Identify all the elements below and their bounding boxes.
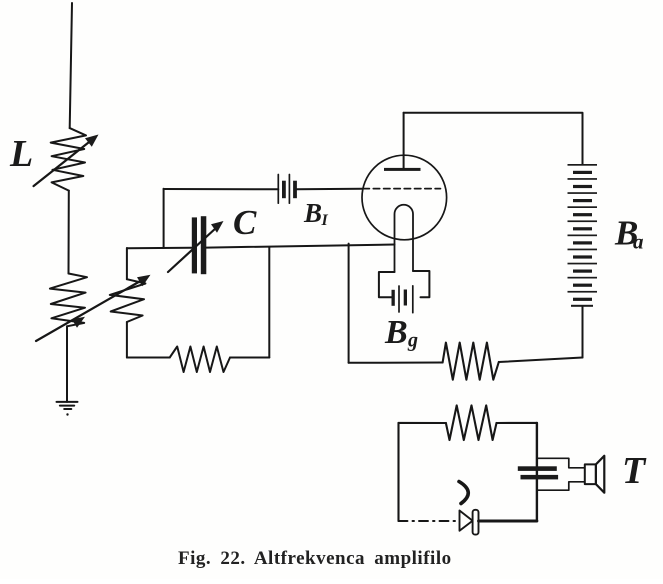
svg-text:Fig. 22. Altfrekvenca amplifil: Fig. 22. Altfrekvenca amplifilo: [178, 548, 452, 569]
svg-text:g: g: [407, 330, 418, 352]
detector coupling coil: [446, 405, 497, 440]
triode tube envelope: [362, 155, 447, 240]
capacitor across phones (bottom plate): [521, 475, 559, 480]
filament (cathode) loop of tube: [395, 205, 414, 272]
label B1: [303, 198, 329, 229]
phone connector bottom lead: [537, 482, 585, 490]
wire grid line to battery B1: [164, 188, 279, 190]
inductor L (variable antenna coil): [51, 128, 86, 191]
detector loop left side: [397, 423, 399, 521]
svg-text:T: T: [622, 450, 647, 492]
wire cathode drop vertical: [348, 244, 350, 363]
filament bracket right: [413, 271, 429, 297]
arrow of variable capacitor C: [168, 221, 224, 272]
wire tank top left segment: [127, 247, 192, 250]
wire tank bottom left: [127, 357, 170, 359]
arrow of variable inductor L: [34, 135, 99, 187]
battery Bg cells: [392, 286, 413, 313]
battery B1 (grid battery): [278, 175, 297, 204]
cat whisker arc above diode: [459, 482, 468, 504]
capacitor across phones (top plate): [518, 466, 557, 471]
plate (anode) bar of tube: [384, 168, 421, 171]
wire battery B1 to tube grid: [297, 188, 362, 191]
wire grid tap vertical: [163, 189, 165, 248]
svg-text:B: B: [384, 314, 408, 351]
detector loop top-left wire: [399, 422, 446, 424]
svg-text:I: I: [321, 212, 329, 229]
label Ba: [614, 214, 644, 254]
diode (crystal detector): [460, 510, 479, 535]
wire tank right side: [268, 248, 270, 358]
wire plate lead: [403, 113, 405, 168]
wire from L down to coupling coil: [68, 191, 70, 274]
wire dash-dot bottom left of loop: [399, 520, 460, 522]
filament bracket left: [379, 272, 395, 297]
wire coil to ground: [66, 326, 68, 402]
grid (dashed) of tube: [363, 188, 441, 190]
inductor tank bottom coil: [170, 347, 230, 373]
primary coil of variocoupler (left): [50, 274, 87, 327]
svg-text:L: L: [9, 133, 33, 175]
wire anode return right: [499, 358, 583, 363]
detector loop top-right wire: [497, 422, 537, 424]
wire antenna lead-in: [70, 3, 72, 128]
ground: [57, 402, 78, 416]
arrow of variocoupler (through both coils): [36, 275, 151, 341]
capacitor C plates (variable): [192, 216, 207, 274]
wire bottom right of loop: [479, 520, 537, 523]
telephone receiver T body: [585, 464, 596, 484]
secondary coil of variocoupler (right, tank inductor): [110, 248, 146, 358]
wire tank bottom right: [230, 357, 269, 359]
wire plate top to Ba: [404, 113, 583, 164]
phone connector top lead: [537, 458, 585, 468]
svg-text:C: C: [233, 203, 257, 242]
wire cathode return (tank top to filament): [206, 245, 394, 248]
wire Ba bottom lead: [582, 307, 584, 358]
wire anode return left: [349, 362, 443, 364]
label Bg: [384, 314, 418, 352]
detector loop right side: [536, 423, 538, 521]
battery Ba (anode battery) cells: [568, 164, 598, 307]
telephone receiver T horn: [596, 456, 604, 493]
svg-text:a: a: [633, 230, 644, 254]
resistor anode coupling coil: [443, 343, 499, 380]
svg-text:B: B: [303, 198, 322, 228]
